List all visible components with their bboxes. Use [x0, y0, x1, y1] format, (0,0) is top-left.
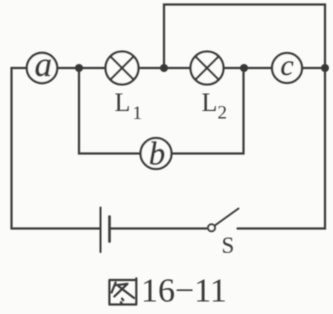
caption: hanzi "tu" (drawn strokes): [109, 278, 136, 304]
node: junction after meter a: [75, 64, 83, 72]
wire: meter a to lamp L1: [56, 67, 106, 69]
meter a (ammeter circle): [27, 45, 57, 84]
meter c: [272, 49, 302, 83]
lamp L1: [106, 52, 139, 85]
svg-text:S: S: [222, 233, 235, 258]
svg-text:a: a: [35, 45, 53, 84]
node: junction after L2: [240, 64, 248, 72]
battery (cell): long plate: [100, 208, 102, 253]
battery (cell): short plate: [108, 217, 111, 242]
wire: battery to switch: [110, 227, 207, 229]
node: junction at right wire: [321, 64, 329, 72]
switch S: lever: [215, 209, 239, 226]
wire: lamp L2 to meter c: [224, 67, 273, 69]
wire: lamp L1 to lamp L2: [139, 67, 191, 69]
wire: branch down-left to meter b: [79, 68, 141, 154]
svg-text:L: L: [202, 88, 218, 117]
wire: left side (meter a to left corner, down, bottom to battery): [12, 68, 101, 229]
label L2: [202, 88, 228, 124]
label L1: [115, 88, 143, 124]
switch S: pivot circle: [208, 224, 215, 231]
meter b: [141, 137, 172, 173]
svg-text:16−11: 16−11: [141, 273, 227, 310]
lamp L2: [191, 52, 224, 85]
wire: switch to bottom-right corner, up right side, top wire, down to node between L1 L2: [164, 5, 325, 229]
node: junction between L1 and L2: [160, 64, 168, 72]
svg-text:2: 2: [218, 103, 228, 124]
wire: meter b up-right to node after L2: [172, 68, 244, 154]
svg-text:L: L: [115, 88, 131, 117]
wire: meter c to right side: [302, 67, 325, 69]
svg-text:c: c: [280, 49, 293, 82]
svg-text:1: 1: [133, 103, 143, 124]
svg-text:b: b: [149, 137, 166, 173]
